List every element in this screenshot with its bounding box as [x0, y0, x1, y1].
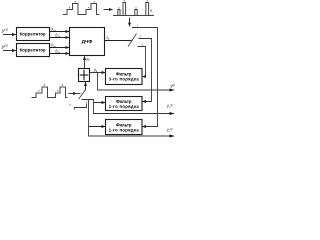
svg-text:3-го порядка: 3-го порядка: [109, 77, 140, 82]
svg-text:ŷa: ŷa: [86, 57, 91, 62]
svg-text:1-го порядка: 1-го порядка: [109, 104, 140, 109]
svg-text:ŷa(t): ŷa(t): [166, 128, 173, 133]
svg-text:ДЧФ: ДЧФ: [82, 39, 93, 45]
svg-text:ŷa(t): ŷa(t): [166, 104, 173, 109]
svg-text:1-го порядка: 1-го порядка: [109, 127, 140, 132]
svg-text:2: 2: [140, 35, 142, 39]
svg-text:0: 0: [70, 103, 72, 107]
svg-text:Û1a: Û1a: [51, 27, 57, 33]
svg-text:Коррелятор: Коррелятор: [20, 48, 46, 53]
svg-text:Û2a: Û2a: [51, 43, 57, 49]
svg-text:y(1): y(1): [1, 28, 8, 34]
svg-text:1: 1: [137, 24, 139, 28]
svg-text:Q̂1a: Q̂1a: [55, 33, 61, 38]
svg-text:Q̂2a: Q̂2a: [55, 49, 61, 54]
svg-text:ŷ(t): ŷ(t): [170, 84, 175, 88]
svg-text:y(2): y(2): [1, 44, 8, 50]
svg-text:3: 3: [142, 43, 144, 47]
svg-text:Коррелятор: Коррелятор: [20, 32, 46, 37]
svg-text:1: 1: [86, 100, 88, 104]
svg-text:εy: εy: [107, 36, 111, 41]
